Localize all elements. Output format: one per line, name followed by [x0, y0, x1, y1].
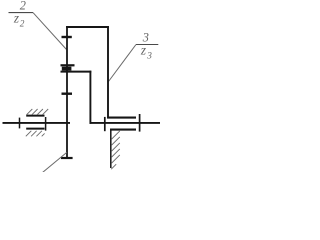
- svg-text:2: 2: [20, 0, 26, 13]
- gear 3 hub lower rail: [110, 129, 136, 131]
- top connecting bar between gear 2 and gear 3: [66, 26, 109, 28]
- gear 3 vertical line: [107, 26, 109, 119]
- carrier arm horizontal: [61, 71, 92, 73]
- planet hub upper tick: [61, 64, 75, 66]
- label 3/z3 fraction bar: [136, 44, 158, 46]
- leader line to lower shaft (label cropped): [43, 152, 67, 172]
- planet hub bearing block: [62, 67, 72, 71]
- gear 2 upper rim tick: [62, 36, 72, 38]
- bearing hatch above: [27, 109, 49, 115]
- bearing hatch below: [26, 131, 45, 137]
- carrier arm vertical: [89, 71, 91, 124]
- leader line to gear z3: [109, 45, 137, 82]
- gear 2 lower rim tick: [62, 92, 73, 94]
- hub left tick: [104, 117, 106, 131]
- label 2/z2 fraction bar: [9, 12, 34, 14]
- svg-text:2: 2: [20, 19, 25, 29]
- bearing upper rail: [26, 115, 44, 117]
- bearing lower rail: [26, 128, 44, 130]
- bearing tick: [45, 117, 47, 131]
- svg-text:3: 3: [146, 51, 152, 61]
- input shaft left: [3, 122, 71, 124]
- gear 3 hub upper rail: [107, 117, 136, 119]
- fixed support line: [110, 130, 112, 168]
- shaft end tick: [19, 118, 21, 129]
- fixed support hatch: [111, 131, 120, 169]
- lower shaft foot tick: [61, 157, 73, 159]
- hub right tick: [139, 114, 141, 132]
- leader line to gear z2: [33, 13, 67, 50]
- output shaft right: [90, 122, 161, 124]
- gear 2 vertical line: [66, 26, 68, 159]
